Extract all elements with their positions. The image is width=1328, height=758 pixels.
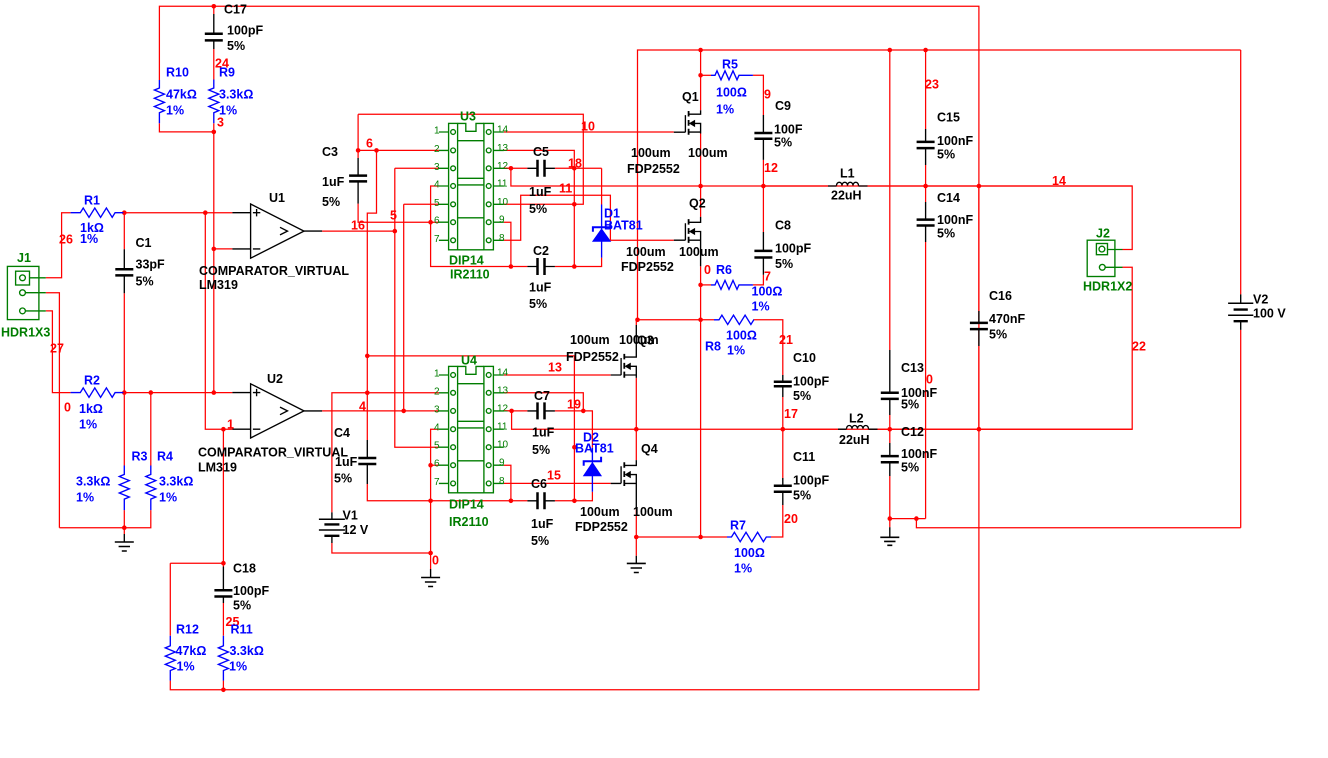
svg-text:9: 9 (499, 458, 505, 469)
wire U4 pin4 down to COM row V1 minus and ground (431, 429, 439, 569)
svg-text:IR2110: IR2110 (450, 268, 490, 282)
node dot H2 C15 column (923, 48, 928, 53)
op-amp U1 comparator (232, 204, 322, 258)
battery V2 (1228, 294, 1253, 330)
svg-text:26: 26 (59, 233, 73, 247)
svg-text:HDR1X3: HDR1X3 (1, 326, 50, 340)
svg-text:16: 16 (351, 219, 365, 233)
wire R11 bottom to bottom rail (222, 681, 224, 690)
svg-text:4: 4 (434, 423, 440, 434)
resistor R6 (711, 280, 753, 289)
svg-text:6: 6 (434, 459, 440, 470)
svg-text:470nF: 470nF (989, 312, 1025, 326)
svg-text:R8: R8 (705, 340, 721, 354)
transistor Q4 (611, 460, 637, 509)
svg-text:3: 3 (217, 116, 224, 130)
wire node 6 corner to pin10 feed rail (358, 114, 583, 204)
svg-text:1: 1 (434, 369, 440, 380)
svg-text:100pF: 100pF (227, 24, 263, 38)
capacitor C18 (214, 567, 232, 604)
svg-text:1: 1 (227, 418, 234, 432)
svg-text:100Ω: 100Ω (752, 285, 783, 299)
svg-text:12: 12 (497, 403, 509, 414)
node dot H2 C13 column (888, 48, 893, 53)
svg-text:11: 11 (497, 179, 508, 190)
node dot H2 Q1 drain column (698, 48, 703, 53)
svg-text:IR2110: IR2110 (449, 515, 489, 529)
node dot node 6 C3 top (356, 148, 361, 153)
capacitor C4 (358, 440, 376, 484)
svg-text:3.3kΩ: 3.3kΩ (159, 475, 193, 489)
node dot C2 right pin10 vertical (572, 264, 577, 269)
node dot U4 pin12 node 19 (509, 409, 514, 414)
wire C14 bottom column to ground row (925, 242, 927, 519)
wire D1 cathode up to C5 row (601, 168, 603, 204)
svg-text:5%: 5% (136, 275, 154, 289)
node dot U4 pin6 tie (428, 463, 433, 468)
capacitor C3 (349, 158, 367, 204)
wire V2 minus to return row (1240, 330, 1242, 528)
svg-text:C8: C8 (775, 219, 791, 233)
node dot ground row V2 return (914, 516, 919, 521)
svg-text:U3: U3 (460, 110, 476, 124)
svg-text:0: 0 (64, 401, 71, 415)
transistor Q3 (611, 325, 637, 378)
svg-text:5%: 5% (937, 148, 955, 162)
svg-text:9: 9 (499, 215, 505, 226)
svg-text:1uF: 1uF (532, 426, 555, 440)
svg-text:0: 0 (926, 373, 933, 387)
svg-text:C5: C5 (533, 145, 549, 159)
node dot U3 pin12 (509, 166, 514, 171)
capacitor C7 horizontal (527, 402, 555, 419)
wire bottom rail R7 row (636, 536, 727, 538)
capacitor C14 (917, 202, 935, 242)
svg-text:100pF: 100pF (793, 375, 829, 389)
node dot R6 tap on Q2 source (698, 283, 703, 288)
node dot R8 row Q2 source column (698, 318, 703, 323)
svg-text:12 V: 12 V (343, 523, 369, 537)
svg-text:FDP2552: FDP2552 (627, 162, 680, 176)
wire R7 right up to C11 bottom net 20 (771, 505, 783, 537)
wire L2 right toward C13 column (868, 428, 1133, 430)
svg-text:15: 15 (547, 469, 561, 483)
svg-text:4: 4 (434, 180, 440, 191)
svg-text:Q1: Q1 (682, 90, 699, 104)
svg-text:5%: 5% (793, 389, 811, 403)
svg-text:10: 10 (497, 197, 509, 208)
svg-text:R5: R5 (722, 58, 738, 72)
node dot net 4 row (365, 391, 370, 396)
svg-text:BAT81: BAT81 (604, 219, 643, 233)
svg-text:R11: R11 (231, 623, 253, 637)
transistor Q2 (674, 217, 701, 266)
node dot node 3 R9 bottom (212, 130, 217, 135)
wire Q4 drain from lower rail (635, 429, 637, 460)
capacitor C9 (754, 115, 772, 160)
svg-text:3.3kΩ: 3.3kΩ (230, 644, 264, 658)
wire C16 top from output rail (978, 186, 980, 311)
svg-text:23: 23 (925, 78, 939, 92)
node dot output rail C9 C8 column (761, 184, 766, 189)
wire C2 right to D1 anode (555, 258, 602, 267)
wire J1 pin1 to R1 left (46, 213, 71, 278)
capacitor C15 (917, 129, 935, 165)
wire C11 top from lower rail (782, 429, 784, 478)
svg-text:LM319: LM319 (199, 278, 238, 292)
svg-text:FDP2552: FDP2552 (575, 520, 628, 534)
svg-text:1%: 1% (177, 660, 195, 674)
svg-text:7: 7 (434, 234, 440, 245)
svg-text:C13: C13 (901, 361, 924, 375)
svg-text:C18: C18 (233, 562, 256, 576)
svg-text:27: 27 (50, 342, 64, 356)
svg-text:1: 1 (434, 126, 440, 137)
op-amp U3 IR2110 DIP14 package (439, 123, 504, 249)
resistor R1 (71, 208, 124, 217)
svg-text:100um: 100um (633, 505, 673, 519)
node dot node 6 jog (374, 148, 379, 153)
wire R8 row Q3 drain junction (638, 319, 715, 321)
svg-text:5%: 5% (532, 443, 550, 457)
wire U1 output to node 16 junction (322, 230, 395, 232)
wire R9 bottom to node 3 (213, 123, 215, 132)
wire output rail right of C15 column (926, 185, 1133, 187)
svg-text:FDP2552: FDP2552 (621, 260, 674, 274)
wire C15 bottom to output rail (925, 165, 927, 186)
node dot bottom rail Q2 column (698, 535, 703, 540)
svg-text:22: 22 (1132, 340, 1146, 354)
node dot lower rail C10 C11 column (781, 427, 786, 432)
svg-text:5%: 5% (531, 534, 549, 548)
wire node 16 vertical U3 pin3 to U4 pin5 (395, 168, 439, 447)
capacitor C12 (881, 443, 899, 476)
svg-text:100um: 100um (619, 333, 659, 347)
svg-text:21: 21 (779, 333, 793, 347)
wire node 5 vertical U3 pin5 to U2 out (403, 204, 405, 411)
capacitor C6 horizontal (527, 492, 555, 509)
wire R12 top lead red (169, 563, 171, 636)
wire U4 pin9 jog down to C6 row (504, 465, 511, 501)
wire C1 bottom through R2 row to R3 top (123, 293, 125, 465)
wire C13 top from H2 rail (889, 50, 891, 350)
svg-text:J2: J2 (1096, 227, 1110, 241)
svg-text:J1: J1 (17, 251, 31, 265)
svg-text:4: 4 (359, 400, 366, 414)
wire U3 pin8 up and over to Q2 gate (504, 195, 674, 240)
svg-text:100nF: 100nF (937, 213, 973, 227)
wire D2 anode down to C6 row (555, 492, 593, 501)
svg-text:100Ω: 100Ω (716, 86, 747, 100)
svg-text:14: 14 (497, 125, 509, 136)
svg-text:5%: 5% (529, 202, 547, 216)
svg-text:5%: 5% (937, 227, 955, 241)
wire top rail net 23 with feedback vertical to bottom rail (159, 6, 979, 690)
svg-text:R3: R3 (132, 450, 148, 464)
capacitor C5 horizontal (527, 160, 555, 177)
wire U1 inv input stub red (214, 248, 233, 250)
svg-text:LM319: LM319 (198, 461, 237, 475)
svg-text:14: 14 (1052, 174, 1066, 188)
node dot C6 right D2 anode (572, 499, 577, 504)
wire C15 top from H2 (925, 50, 927, 129)
svg-text:L1: L1 (840, 167, 855, 181)
svg-text:3: 3 (434, 404, 440, 415)
node dot R1 row to U2 inv branch (203, 210, 208, 215)
svg-text:1%: 1% (79, 418, 97, 432)
wire node 24 between C17 and R9 (213, 49, 215, 80)
svg-text:R2: R2 (84, 374, 100, 388)
capacitor C16 (970, 311, 988, 346)
svg-text:100um: 100um (688, 146, 728, 160)
resistor R2 (71, 388, 124, 397)
svg-text:12: 12 (497, 161, 509, 172)
wire C7 right to D2 cathode column (555, 411, 593, 448)
node dot U4 pin10 row tie (572, 445, 577, 450)
svg-text:100um: 100um (580, 505, 620, 519)
svg-text:V2: V2 (1253, 293, 1268, 307)
resistor R11 (218, 636, 228, 681)
svg-text:22uH: 22uH (831, 189, 862, 203)
wire ground node row to V2 return (890, 519, 1241, 528)
wire U3 pin12 jog down to output rail net 11 (504, 168, 1132, 249)
wire C18 bottom node 25 to R11 (222, 603, 224, 636)
wire Q1 source to output rail (700, 134, 702, 187)
node dot C18 node 1 (221, 561, 226, 566)
wire C9 bottom to output rail net 12 (762, 160, 764, 186)
node dot V1 minus ground node 0 (428, 551, 433, 556)
node dot output rail C15 C14 (923, 184, 928, 189)
node dot C5 row pin13 tie net 18 (572, 166, 577, 171)
svg-text:0: 0 (432, 554, 439, 568)
inductor L1 (828, 182, 868, 186)
capacitor C13 (881, 350, 899, 415)
node dot R1 C1 junction (122, 210, 127, 215)
svg-text:8: 8 (499, 476, 505, 487)
svg-text:1%: 1% (166, 104, 184, 118)
wire C4 top lead (366, 356, 368, 440)
svg-text:5: 5 (390, 209, 397, 223)
wire Q2 drain from output rail (700, 186, 702, 217)
svg-text:22uH: 22uH (839, 433, 870, 447)
ground at V1 minus (421, 569, 440, 587)
svg-text:1%: 1% (76, 491, 94, 505)
svg-text:1%: 1% (716, 103, 734, 117)
svg-text:1uF: 1uF (322, 175, 345, 189)
resistor R8 (714, 315, 754, 324)
svg-text:10: 10 (497, 440, 509, 451)
node dot R5 tap on Q1 drain (698, 73, 703, 78)
svg-text:6: 6 (434, 216, 440, 227)
svg-text:11: 11 (559, 182, 572, 196)
svg-text:2: 2 (434, 386, 440, 397)
wire pin10 net vertical C5 row to C2 row (573, 168, 575, 266)
svg-text:R4: R4 (157, 450, 173, 464)
node dot R2 row R4 (149, 390, 154, 395)
svg-text:5: 5 (434, 198, 440, 209)
svg-text:HDR1X2: HDR1X2 (1083, 280, 1132, 294)
capacitor C17 (205, 14, 223, 49)
svg-text:C14: C14 (937, 191, 960, 205)
svg-text:BAT81: BAT81 (575, 442, 614, 456)
svg-text:3.3kΩ: 3.3kΩ (219, 88, 253, 102)
ground at R3 bottom (115, 534, 134, 551)
svg-text:5%: 5% (227, 39, 245, 53)
svg-text:5%: 5% (334, 472, 352, 486)
resistor R3 (119, 466, 129, 511)
svg-text:11: 11 (497, 422, 508, 433)
resistor R5 (711, 71, 753, 80)
wire C12 bottom to ground node (889, 476, 891, 519)
svg-text:8: 8 (499, 233, 505, 244)
svg-text:47kΩ: 47kΩ (166, 88, 197, 102)
svg-text:C9: C9 (775, 99, 791, 113)
node dot C6 row pin9 (509, 499, 514, 504)
svg-text:7: 7 (434, 477, 440, 488)
svg-text:C2: C2 (533, 244, 549, 258)
node dot output rail Q1 source (698, 184, 703, 189)
svg-text:5%: 5% (775, 257, 793, 271)
node dot U1 inv input (212, 247, 217, 252)
svg-text:24: 24 (215, 57, 229, 71)
wire R4 top lead red (150, 393, 152, 466)
svg-text:1%: 1% (734, 562, 752, 576)
svg-text:100F: 100F (774, 123, 803, 137)
svg-text:5%: 5% (901, 398, 919, 412)
wire U3 pin5 row (404, 203, 439, 205)
wire U3 pin12 row to C5 (504, 167, 528, 169)
svg-text:R1: R1 (84, 194, 100, 208)
svg-text:12: 12 (764, 161, 778, 175)
svg-text:5%: 5% (989, 328, 1007, 342)
node dot C2 row pin9 (509, 264, 514, 269)
svg-text:C12: C12 (901, 425, 924, 439)
battery V1 (319, 512, 345, 543)
resistor R4 (146, 466, 156, 511)
svg-text:5%: 5% (774, 136, 792, 150)
svg-text:13: 13 (497, 385, 509, 396)
svg-text:C7: C7 (534, 389, 550, 403)
svg-text:1%: 1% (752, 300, 770, 314)
svg-text:100pF: 100pF (775, 242, 811, 256)
svg-text:5%: 5% (793, 489, 811, 503)
svg-text:5%: 5% (529, 297, 547, 311)
svg-text:L2: L2 (849, 412, 864, 426)
resistor R7 (727, 532, 771, 541)
wire C12 top lead (889, 429, 891, 443)
wire U4 pin13 jog to C7 row net 19 (504, 393, 584, 411)
svg-text:100nF: 100nF (901, 447, 937, 461)
svg-text:7: 7 (764, 270, 771, 284)
svg-text:3: 3 (434, 162, 440, 173)
wire C14 top lead from output rail (925, 186, 927, 202)
svg-text:FDP2552: FDP2552 (566, 350, 619, 364)
svg-text:1kΩ: 1kΩ (79, 402, 103, 416)
svg-text:COMPARATOR_VIRTUAL: COMPARATOR_VIRTUAL (198, 446, 348, 460)
svg-text:1uF: 1uF (529, 185, 552, 199)
svg-text:C11: C11 (793, 450, 815, 464)
svg-text:C1: C1 (136, 236, 152, 250)
op-amp U4 IR2110 DIP14 package (439, 366, 504, 492)
wire node 6 top of C3 (357, 114, 359, 158)
svg-text:1uF: 1uF (529, 281, 552, 295)
svg-text:U1: U1 (269, 191, 285, 205)
node dot pin10 row tie (572, 202, 577, 207)
node dot C17 top rail (212, 4, 217, 9)
wire R1 right to U1 plus input (123, 212, 232, 214)
svg-text:U2: U2 (267, 372, 283, 386)
svg-text:100um: 100um (626, 245, 666, 259)
wire R3 R4 bottom rail to ground (59, 510, 150, 528)
node dot U2 plus input (212, 390, 217, 395)
inductor L2 (838, 426, 878, 430)
svg-text:13: 13 (548, 361, 562, 375)
ground at C12 bottom (880, 527, 899, 545)
svg-text:100um: 100um (631, 146, 671, 160)
wire Q2 source down through R6 node to R8 row (700, 266, 702, 537)
svg-text:100 V: 100 V (1253, 307, 1286, 321)
wire C13 bottom to lower rail (889, 415, 891, 429)
connector J1 HDR1X3 (7, 266, 45, 319)
wire R1 row branch down to U2 inv input (205, 213, 232, 430)
svg-text:R12: R12 (176, 623, 199, 637)
wire R6 right up to C8 bottom net 7 (753, 275, 764, 285)
svg-text:6: 6 (366, 137, 373, 151)
svg-text:3.3kΩ: 3.3kΩ (76, 475, 110, 489)
svg-text:1%: 1% (159, 491, 177, 505)
wire U3 pin3 row (395, 167, 439, 169)
svg-text:100um: 100um (679, 245, 719, 259)
wire H2 supply rail 12V bridge top (638, 50, 1241, 320)
svg-text:100nF: 100nF (937, 134, 973, 148)
wire R3 bottom lead (123, 510, 125, 534)
node dot R2 row C1 R3 (122, 390, 127, 395)
node dot C4 top (365, 354, 370, 359)
svg-text:C15: C15 (937, 111, 960, 125)
svg-text:1%: 1% (727, 344, 745, 358)
wire C8 top to output rail (762, 186, 764, 232)
node dot output rail C16 column (977, 184, 982, 189)
svg-text:33pF: 33pF (136, 258, 166, 272)
svg-text:R10: R10 (166, 66, 189, 80)
svg-text:C6: C6 (531, 477, 547, 491)
svg-text:100pF: 100pF (793, 474, 829, 488)
node dot R8 row Q3 drain (635, 318, 640, 323)
svg-text:Q2: Q2 (689, 197, 706, 211)
wire L1 leads on output rail (763, 185, 828, 187)
node dot U2 output node 4 (401, 409, 406, 414)
node dot R11 bottom rail (221, 688, 226, 693)
capacitor C1 (115, 249, 133, 293)
node dot U2 inv node 1 (221, 427, 226, 432)
svg-text:DIP14: DIP14 (449, 254, 484, 268)
resistor R9 (209, 80, 219, 124)
node dot U4 COM row pin4 vertical (428, 499, 433, 504)
node dot lower rail C16 column (977, 427, 982, 432)
wire Q4 ground stem red (635, 537, 637, 556)
node dot ground node C12 bottom (888, 516, 893, 521)
diode D2 BAT81 (584, 448, 601, 492)
capacitor C2 horizontal (527, 258, 555, 275)
svg-text:100um: 100um (570, 333, 610, 347)
svg-text:5%: 5% (322, 195, 340, 209)
node dot U1 output node 16 (393, 229, 398, 234)
wire Q4 source to bottom rail (635, 510, 637, 538)
wire U3 pin14 row net 10 to Q1 gate (504, 131, 674, 133)
node dot R3 bottom ground rail (122, 525, 127, 530)
wire U2 output to U4 pin3 (322, 410, 439, 412)
wire R6 left stub (701, 284, 711, 286)
